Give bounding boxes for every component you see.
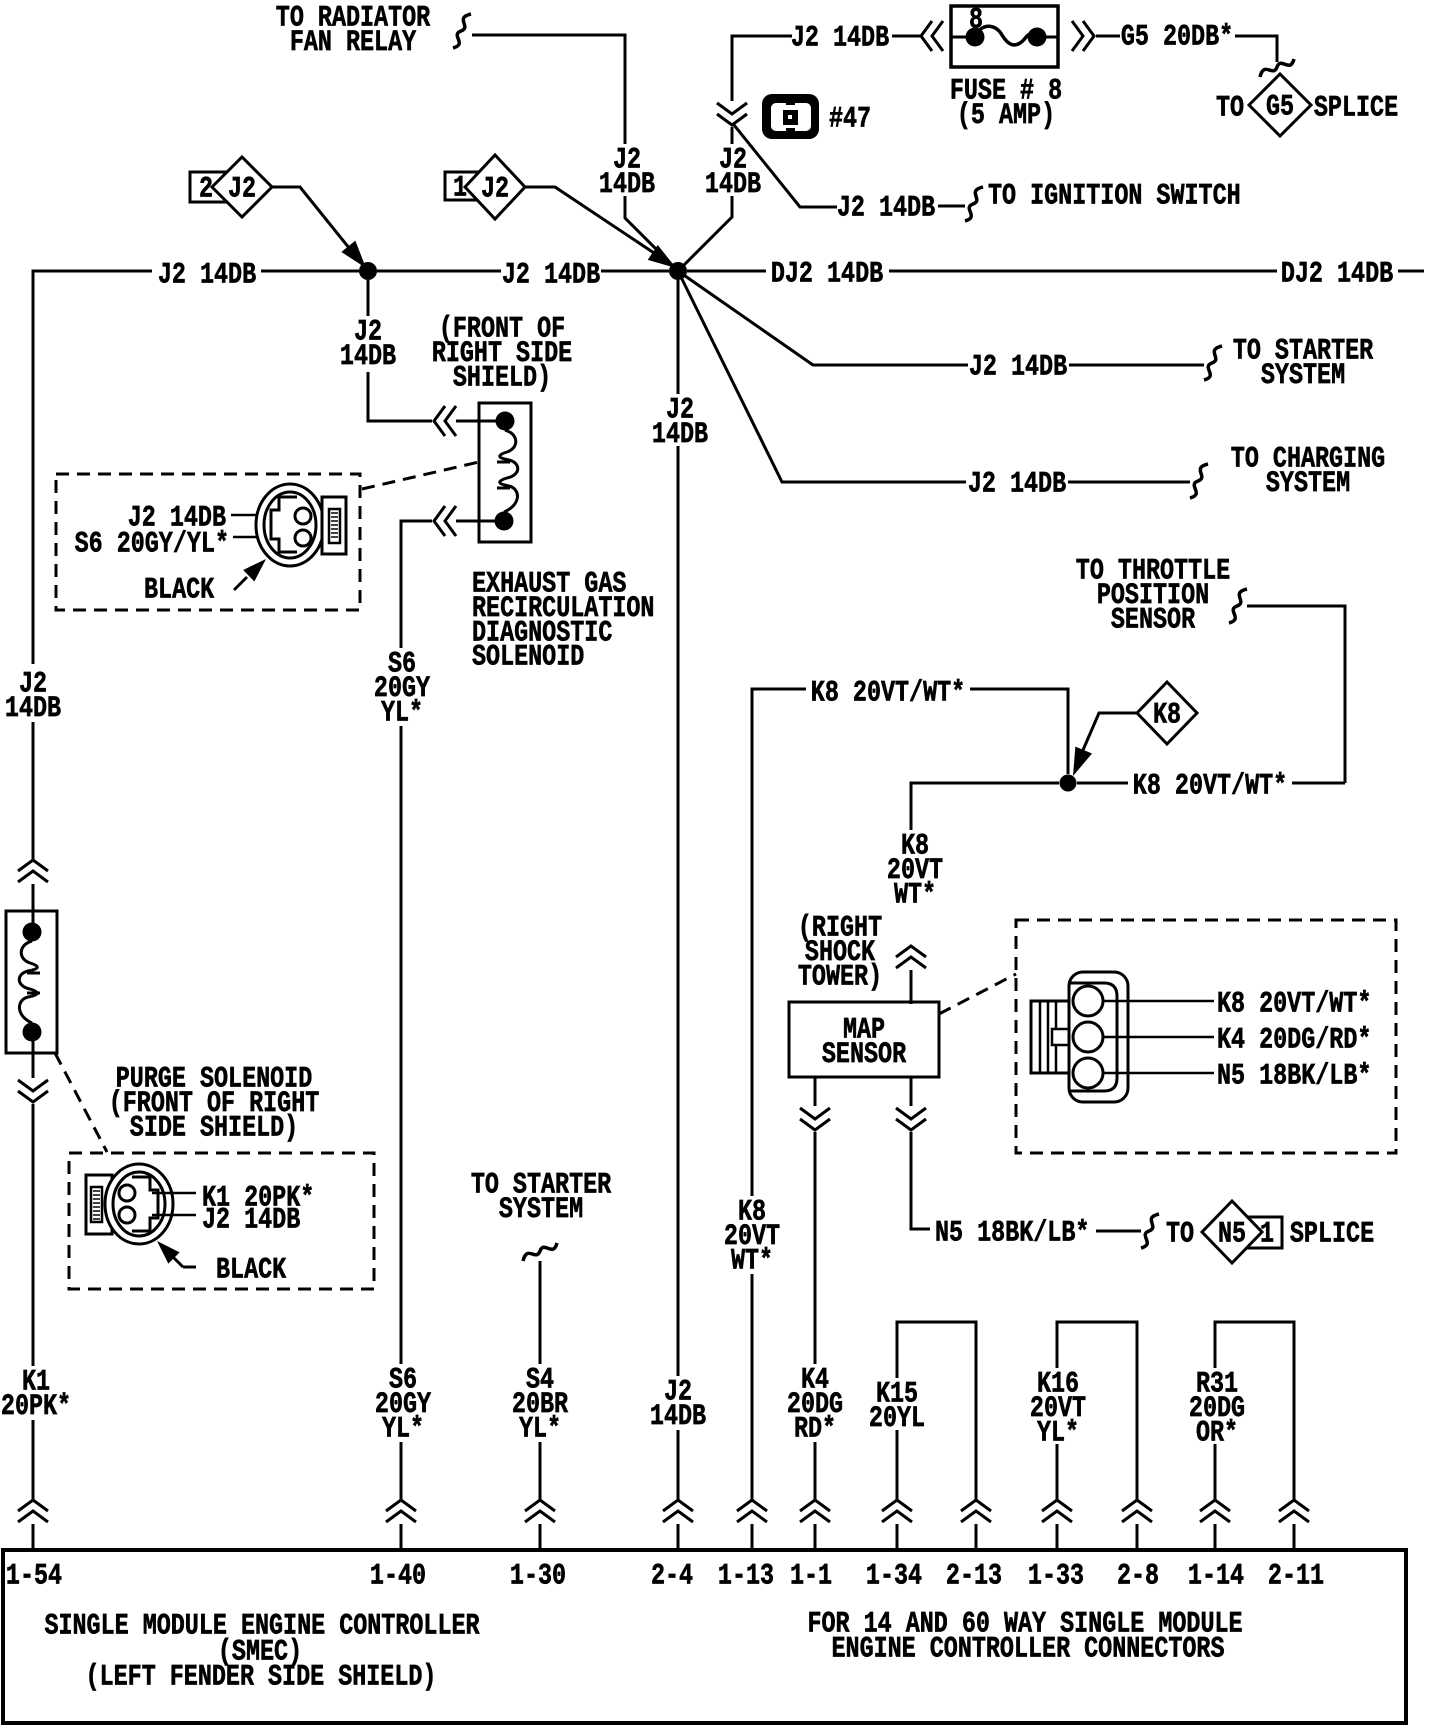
- leader N5 pin (MAP connector): [1103, 1072, 1214, 1075]
- wire K4 column: [814, 1132, 817, 1364]
- svg-text:1-14: 1-14: [1188, 1560, 1244, 1593]
- svg-text:K8 20VT/WT*: K8 20VT/WT*: [1217, 988, 1371, 1021]
- wire K8 upper row corner: [752, 689, 806, 806]
- svg-text:R3120DGOR*: R3120DGOR*: [1189, 1368, 1245, 1450]
- wire DJ2 mid segment: [889, 270, 1277, 273]
- wire bus splice1 to label2: [377, 270, 501, 273]
- MAP connector detail dashed box: [1016, 920, 1396, 1153]
- svg-text:#47: #47: [829, 103, 871, 136]
- svg-text:(RIGHTSHOCKTOWER): (RIGHTSHOCKTOWER): [798, 912, 882, 994]
- wire K8 diamond to splice: [1080, 713, 1137, 757]
- wire bus label1 to splice 1: [261, 270, 359, 273]
- wire to ignition squiggle: [938, 205, 965, 208]
- svg-text:J2 14DB: J2 14DB: [158, 259, 256, 292]
- svg-text:(LEFT FENDER SIDE SHIELD): (LEFT FENDER SIDE SHIELD): [86, 1661, 437, 1694]
- svg-text:N5 18BK/LB*: N5 18BK/LB*: [1217, 1060, 1371, 1093]
- wire J2 label to SMEC: [677, 1430, 680, 1500]
- dashed leader EGR connector to solenoid: [362, 462, 479, 489]
- inline connector break on J2 drop (below fuse corner): [717, 103, 747, 125]
- break squiggle throttle: [1229, 589, 1247, 623]
- svg-text:J2 14DB: J2 14DB: [502, 259, 600, 292]
- node splice 1 (J2): [359, 262, 377, 280]
- label J2 14DB (EGR drop): [340, 316, 396, 374]
- wire left column to purge solenoid: [32, 722, 35, 860]
- label K4 20DG RD*: [787, 1364, 843, 1446]
- label J2 14DB (bus left): [158, 259, 256, 292]
- purge connector face symbol: [86, 1164, 173, 1244]
- label TO THROTTLE POSITION SENSOR: [1076, 555, 1230, 637]
- svg-text:DJ2 14DB: DJ2 14DB: [1281, 258, 1393, 291]
- svg-text:J2: J2: [228, 173, 256, 206]
- wire fuse to G5: [1096, 35, 1120, 38]
- arrowhead at main splice J2: [648, 245, 676, 268]
- svg-text:1-13: 1-13: [718, 1560, 774, 1593]
- svg-text:1-1: 1-1: [790, 1560, 832, 1593]
- leader K1 pin: [152, 1192, 196, 1195]
- label J2 14DB (EGR connector): [128, 502, 226, 535]
- svg-text:K1620VTYL*: K1620VTYL*: [1030, 1368, 1086, 1450]
- wire bus main splice to DJ2 label: [687, 270, 766, 273]
- wire S6 label to SMEC: [400, 1442, 403, 1500]
- inline connector break K8 at SMEC: [737, 1500, 767, 1522]
- EGR diagnostic solenoid (coil in box): [479, 403, 531, 542]
- leader J2 pin: [152, 1214, 196, 1217]
- wire S4 label to SMEC: [539, 1442, 542, 1500]
- inline connector break above purge solenoid: [18, 860, 48, 882]
- inline connector break R31 left at SMEC: [1200, 1500, 1230, 1522]
- svg-text:K4 20DG/RD*: K4 20DG/RD*: [1217, 1024, 1371, 1057]
- svg-text:1: 1: [1260, 1218, 1274, 1251]
- leader J2 pin (EGR connector): [231, 514, 258, 517]
- inline connector break K4 at SMEC: [800, 1500, 830, 1522]
- wires K15 legs into SMEC box: [897, 1524, 976, 1552]
- label K16 20VT YL*: [1030, 1368, 1086, 1450]
- inline connector break MAP K4: [800, 1108, 830, 1130]
- svg-text:1-34: 1-34: [866, 1560, 922, 1593]
- inline connector break K15 right at SMEC: [961, 1500, 991, 1522]
- splice symbol G5: [1249, 74, 1311, 136]
- wire S4 into SMEC box: [539, 1524, 542, 1552]
- wire J2 drop to label: [731, 127, 734, 144]
- label R31 20DG OR*: [1189, 1368, 1245, 1450]
- wire K4 into SMEC box: [814, 1524, 817, 1552]
- wire S4 column: [539, 1261, 542, 1364]
- wire J2 column from main splice: [677, 280, 680, 394]
- svg-text:1-54: 1-54: [6, 1560, 62, 1593]
- wire into purge solenoid: [32, 884, 35, 930]
- wire J2 into SMEC box: [677, 1524, 680, 1552]
- wire K8 upper row to corner: [970, 689, 1068, 774]
- purge connector detail dashed box: [69, 1153, 374, 1289]
- connector 2 J2 (diamond with pin box): [190, 157, 272, 217]
- inline connector break (fuse right): [1072, 21, 1094, 51]
- wire R31 left leg lower: [1214, 1444, 1217, 1500]
- wire from connector 1-J2 to main splice: [525, 187, 672, 265]
- wire MAP N5 output: [910, 1077, 913, 1106]
- label DJ2 14DB (right): [1281, 258, 1393, 291]
- label K8 20VT WT* (column): [724, 1196, 780, 1278]
- label J2 14DB (starter branch): [969, 351, 1067, 384]
- label J2 14DB (charging branch): [968, 468, 1066, 501]
- break squiggle G5: [1260, 59, 1294, 77]
- svg-text:TO RADIATORFAN RELAY: TO RADIATORFAN RELAY: [276, 2, 430, 60]
- splice symbol K8 (diamond): [1137, 682, 1197, 744]
- label J2 14DB (fan relay drop): [599, 144, 655, 202]
- wire K8 row left of splice: [911, 783, 1059, 830]
- inline connector break R31 right at SMEC: [1279, 1500, 1309, 1522]
- wire K4 label to SMEC: [814, 1442, 817, 1500]
- label J2 14DB (column lower): [650, 1376, 706, 1434]
- inline connector break above MAP sensor: [896, 946, 926, 968]
- svg-text:ENGINE CONTROLLER CONNECTORS: ENGINE CONTROLLER CONNECTORS: [831, 1633, 1224, 1666]
- label K8 20VT/WT* (MAP connector): [1217, 988, 1371, 1021]
- purge solenoid (coil in box): [6, 911, 57, 1053]
- wires R31 legs into SMEC box: [1215, 1524, 1294, 1552]
- label N5 18BK/LB*: [935, 1217, 1089, 1250]
- label S6 20GY/YL* (EGR connector): [75, 528, 229, 561]
- label J2 14DB (connector): [202, 1204, 300, 1237]
- label G5 20DB*: [1121, 21, 1233, 54]
- label J2 14DB (left column): [5, 668, 61, 726]
- wire EGR bottom to S6 column: [401, 521, 432, 648]
- svg-text:J2 14DB: J2 14DB: [202, 1204, 300, 1237]
- label S4 20BR YL*: [512, 1364, 568, 1446]
- inline connector break EGR bottom: [434, 506, 456, 536]
- label (RIGHT SHOCK TOWER): [798, 912, 882, 994]
- label BLACK (EGR connector): [144, 574, 214, 607]
- wire K8 label to throttle corner: [1292, 782, 1345, 785]
- label PURGE SOLENOID (FRONT OF RIGHT SIDE SHIELD): [109, 1063, 320, 1145]
- wire K1 into SMEC box: [32, 1524, 35, 1552]
- label TO CHARGING SYSTEM: [1231, 443, 1385, 501]
- wire bus label2 to main splice: [601, 270, 669, 273]
- wire K16 left leg lower: [1056, 1444, 1059, 1500]
- wire K8 row right of splice: [1077, 782, 1128, 785]
- svg-text:1-33: 1-33: [1028, 1560, 1084, 1593]
- wire branch to charging system: [678, 271, 966, 482]
- label TO (N5 splice): [1166, 1218, 1194, 1251]
- svg-text:2-11: 2-11: [1268, 1560, 1324, 1593]
- svg-text:TO IGNITION SWITCH: TO IGNITION SWITCH: [988, 180, 1241, 213]
- MAP sensor box: [789, 1002, 939, 1077]
- label J2 14DB (ignition branch): [837, 192, 935, 225]
- node splice K8: [1060, 775, 1077, 792]
- wire K16 jumper loop: [1057, 1322, 1137, 1500]
- label K8 20VT/WT* (row right): [1133, 770, 1287, 803]
- pin labels SMEC: [6, 1560, 1324, 1593]
- wire N5 label to squiggle: [1096, 1230, 1141, 1233]
- wire break to EGR top terminal: [456, 420, 496, 423]
- svg-text:N5: N5: [1218, 1218, 1246, 1251]
- inline connector break S6 at SMEC: [386, 1500, 416, 1522]
- svg-text:J2: J2: [481, 173, 509, 206]
- wire DJ2 to page edge: [1398, 270, 1424, 273]
- EGR connector face symbol: [256, 484, 346, 566]
- svg-text:J2 14DB: J2 14DB: [968, 468, 1066, 501]
- wire throttle sensor to K8 row: [1247, 606, 1345, 783]
- label TO IGNITION SWITCH: [988, 180, 1241, 213]
- inline connector break MAP N5: [896, 1108, 926, 1130]
- svg-text:G5: G5: [1266, 91, 1294, 124]
- svg-text:TO: TO: [1216, 92, 1244, 125]
- wire branch to ignition switch: [734, 125, 837, 207]
- svg-text:FUSE # 8(5 AMP): FUSE # 8(5 AMP): [950, 75, 1062, 133]
- wire from connector 2-J2 to splice: [272, 187, 362, 264]
- svg-text:TO: TO: [1166, 1218, 1194, 1251]
- label TO (G5 splice): [1216, 92, 1244, 125]
- wire main bus left segment with corner: [33, 271, 152, 664]
- label J2 14DB (fuse feed): [791, 22, 889, 55]
- wire EGR drop to solenoid top: [368, 372, 432, 421]
- break squiggle radiator fan relay: [453, 14, 471, 48]
- label K8 20VT/WT* (upper row): [811, 677, 965, 710]
- inline connector break below purge solenoid: [18, 1080, 48, 1102]
- label TO STARTER SYSTEM: [1233, 335, 1373, 393]
- label J2 14DB (column upper): [652, 394, 708, 452]
- svg-text:K8: K8: [1153, 699, 1181, 732]
- leader K8 pin (MAP connector): [1103, 1000, 1214, 1003]
- connector 1 J2 (diamond with pin box): [445, 155, 525, 219]
- label FOR 14 AND 60 WAY SINGLE MODULE ENGINE CONTROLLER CONNECTORS: [807, 1608, 1242, 1666]
- svg-text:2: 2: [199, 173, 213, 206]
- wire J2 column long segment: [677, 446, 680, 1376]
- wire R31 jumper loop: [1215, 1322, 1294, 1500]
- svg-text:J2 14DB: J2 14DB: [837, 192, 935, 225]
- svg-text:N5 18BK/LB*: N5 18BK/LB*: [935, 1217, 1089, 1250]
- svg-text:S6 20GY/YL*: S6 20GY/YL*: [75, 528, 229, 561]
- inline connector break K1 at SMEC: [18, 1500, 48, 1522]
- label TO STARTER SYSTEM (S4): [471, 1169, 611, 1227]
- svg-text:K1520YL: K1520YL: [869, 1378, 925, 1436]
- label K15 20YL: [869, 1378, 925, 1436]
- wire N5 column to corner: [911, 1132, 930, 1229]
- svg-text:2-13: 2-13: [946, 1560, 1002, 1593]
- svg-text:2-4: 2-4: [651, 1560, 693, 1593]
- splice symbol N5 with pin box: [1202, 1201, 1282, 1263]
- svg-text:K8 20VT/WT*: K8 20VT/WT*: [811, 677, 965, 710]
- label DJ2 14DB: [771, 258, 883, 291]
- inline connector break (fuse left): [921, 21, 943, 51]
- wire K1 label to SMEC: [32, 1420, 35, 1500]
- component icon #47: [762, 94, 819, 139]
- svg-text:BLACK: BLACK: [216, 1254, 286, 1287]
- svg-text:J2 14DB: J2 14DB: [969, 351, 1067, 384]
- SMEC connector box: [3, 1550, 1406, 1723]
- label S6 20GY YL* (lower): [375, 1364, 431, 1446]
- label TO RADIATOR FAN RELAY: [276, 2, 430, 60]
- label K1 20PK* (connector): [202, 1182, 314, 1215]
- svg-text:J2 14DB: J2 14DB: [791, 22, 889, 55]
- label BLACK (purge connector): [216, 1254, 286, 1287]
- label #47: [829, 103, 871, 136]
- wire S6 column to bottom label: [400, 726, 403, 1364]
- EGR connector detail dashed box: [56, 474, 360, 610]
- wire K15 jumper loop: [897, 1322, 976, 1500]
- wire into MAP sensor: [910, 970, 913, 1004]
- leader S6 pin (EGR connector): [233, 536, 258, 539]
- fuse #8 box and element: [951, 4, 1058, 67]
- label SPLICE (G5): [1314, 92, 1398, 125]
- wire MAP K4 output: [814, 1077, 817, 1106]
- wire purge break to K1 label: [32, 1104, 35, 1366]
- arrow BLACK (purge connector): [157, 1241, 196, 1267]
- break squiggle ignition: [965, 187, 983, 221]
- inline connector break J2 at SMEC: [663, 1500, 693, 1522]
- svg-text:G5 20DB*: G5 20DB*: [1121, 21, 1233, 54]
- label SPLICE (N5): [1290, 1218, 1374, 1251]
- label EXHAUST GAS RECIRCULATION DIAGNOSTIC SOLENOID: [472, 568, 654, 674]
- wire J2 drop to splice node: [625, 196, 676, 269]
- label SINGLE MODULE ENGINE CONTROLLER (SMEC) (LEFT FENDER SIDE SHIELD): [44, 1610, 479, 1694]
- wire K8 long column: [751, 806, 754, 1196]
- wire to fuse inline connector: [892, 35, 921, 38]
- label K8 20VT WT* (MAP drop): [887, 830, 943, 912]
- wire fuse feed corner at x=732: [732, 36, 792, 101]
- wire splice1 down: [367, 280, 370, 316]
- label K4 20DG/RD* (MAP connector): [1217, 1024, 1371, 1057]
- wire J2 label to main splice (diagonal): [678, 196, 732, 271]
- label (FRONT OF RIGHT SIDE SHIELD): [432, 313, 572, 395]
- svg-text:1-30: 1-30: [510, 1560, 566, 1593]
- wire S6 into SMEC box: [400, 1524, 403, 1552]
- arrowhead K8 splice: [1073, 747, 1092, 776]
- wire below purge solenoid: [32, 1040, 35, 1078]
- wire G5 to splice drop: [1235, 36, 1277, 62]
- MAP connector face symbol (3 pin): [1031, 972, 1128, 1102]
- label N5 18BK/LB* (MAP connector): [1217, 1060, 1371, 1093]
- wire K15 left leg lower: [896, 1430, 899, 1500]
- svg-text:K8 20VT/WT*: K8 20VT/WT*: [1133, 770, 1287, 803]
- inline connector break K15 left at SMEC: [882, 1500, 912, 1522]
- svg-text:SPLICE: SPLICE: [1290, 1218, 1374, 1251]
- label J2 14DB (bus mid): [502, 259, 600, 292]
- break squiggle N5: [1141, 1214, 1159, 1248]
- svg-text:1-40: 1-40: [370, 1560, 426, 1593]
- dashed leader MAP box to connector detail: [939, 974, 1016, 1014]
- svg-text:(FRONT OFRIGHT SIDESHIELD): (FRONT OFRIGHT SIDESHIELD): [432, 313, 572, 395]
- wire K8 into SMEC box: [751, 1524, 754, 1552]
- svg-text:DJ2 14DB: DJ2 14DB: [771, 258, 883, 291]
- arrow BLACK (EGR connector): [234, 559, 266, 590]
- wire charging label to squiggle: [1068, 481, 1190, 484]
- leader K4 pin (MAP connector): [1103, 1036, 1214, 1039]
- label J2 14DB (ignition drop): [705, 144, 761, 202]
- label FUSE # 8 (5 AMP): [950, 75, 1062, 133]
- svg-text:SPLICE: SPLICE: [1314, 92, 1398, 125]
- svg-text:PURGE SOLENOID(FRONT OF RIGHTS: PURGE SOLENOID(FRONT OF RIGHTSIDE SHIELD…: [109, 1063, 320, 1145]
- svg-text:BLACK: BLACK: [144, 574, 214, 607]
- wire radiator fan relay to J2 vertical: [472, 35, 625, 144]
- break squiggle starter: [1204, 346, 1222, 380]
- dashed leader purge solenoid to connector detail: [55, 1053, 107, 1152]
- wire EGR bottom terminal to break: [456, 520, 496, 523]
- break squiggle charging: [1190, 464, 1208, 498]
- label S6 20GY YL* (upper): [374, 648, 430, 730]
- break squiggle S4: [523, 1243, 557, 1261]
- wires K16 legs into SMEC box: [1057, 1524, 1137, 1552]
- inline connector break EGR top: [434, 406, 456, 436]
- inline connector break S4 at SMEC: [525, 1500, 555, 1522]
- label K1 20PK* (left column): [1, 1366, 71, 1424]
- inline connector break K16 left at SMEC: [1042, 1500, 1072, 1522]
- wire starter label to squiggle: [1069, 364, 1204, 367]
- node main splice (J2/DJ2): [669, 262, 687, 280]
- arrowhead at splice J2 (left): [341, 241, 366, 268]
- wire branch to starter system: [678, 271, 968, 365]
- inline connector break K16 right at SMEC: [1122, 1500, 1152, 1522]
- svg-text:2-8: 2-8: [1117, 1560, 1159, 1593]
- wire K8 label to SMEC: [751, 1274, 754, 1500]
